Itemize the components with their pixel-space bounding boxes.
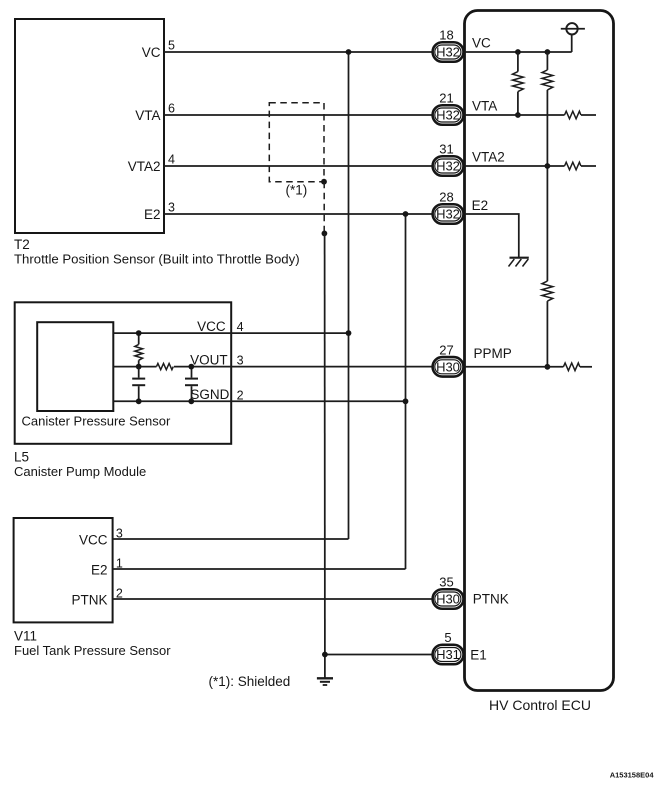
- module box L5 (Canister Pump Module): [15, 302, 232, 444]
- svg-text:27: 27: [439, 342, 453, 357]
- wire vertical VC to L5 VCC and V11 VCC: [348, 52, 350, 539]
- resistor pull-up VCC to VOUT in L5: [135, 333, 143, 367]
- svg-text:A153158E04: A153158E04: [610, 771, 655, 780]
- wire VC from T2 to connector: [164, 51, 433, 53]
- svg-text:Throttle Position Sensor (Buil: Throttle Position Sensor (Built into Thr…: [14, 252, 300, 267]
- wire VTA2 from T2 to connector: [164, 165, 433, 167]
- resistor series on VOUT: [157, 364, 174, 370]
- svg-text:H30: H30: [436, 592, 460, 607]
- svg-text:18: 18: [439, 28, 453, 43]
- connector 21 H32 (VTA): [433, 91, 464, 125]
- node shield corner: [321, 179, 327, 185]
- power node symbol (circle): [561, 23, 585, 52]
- shield dashed box (*1): [269, 103, 324, 182]
- svg-text:VC: VC: [472, 36, 491, 51]
- sensor box V11 (Fuel Tank Pressure Sensor): [14, 518, 113, 622]
- svg-text:(*1): (*1): [286, 183, 308, 198]
- svg-text:T2: T2: [14, 237, 30, 252]
- resistor pull-up VC to VTA: [513, 52, 524, 115]
- svg-text:5: 5: [168, 39, 175, 53]
- svg-text:(*1): Shielded: (*1): Shielded: [209, 674, 291, 689]
- wire VC inside ECU: [463, 51, 572, 53]
- svg-text:VTA: VTA: [135, 108, 160, 123]
- svg-text:6: 6: [168, 102, 175, 116]
- svg-text:E1: E1: [470, 648, 487, 663]
- svg-text:PTNK: PTNK: [473, 592, 509, 607]
- svg-text:L5: L5: [14, 450, 29, 465]
- wire vertical E2 to SGND and V11 E2: [405, 214, 407, 569]
- svg-text:H31: H31: [436, 647, 460, 662]
- wire shield drain dashed: [323, 182, 325, 234]
- node junction resistor bottom on VOUT: [136, 364, 142, 370]
- svg-text:E2: E2: [472, 198, 489, 213]
- svg-text:PPMP: PPMP: [474, 346, 512, 361]
- resistor lower section to PPMP: [542, 281, 553, 367]
- svg-text:3: 3: [237, 354, 244, 368]
- wire PPMP inside ECU: [463, 366, 563, 368]
- resistor series VTA stub: [565, 111, 597, 119]
- svg-text:VTA2: VTA2: [128, 159, 161, 174]
- node shield drain junction: [322, 231, 328, 237]
- svg-text:VCC: VCC: [79, 533, 108, 548]
- wire VTA2 inside ECU: [463, 165, 565, 167]
- chassis ground (E2 internal): [509, 258, 529, 267]
- node junction VTA2 / vertical: [545, 163, 551, 169]
- svg-text:VOUT: VOUT: [190, 352, 228, 367]
- svg-text:31: 31: [439, 142, 453, 157]
- resistor series VTA2 stub: [565, 162, 597, 170]
- wire VTA from T2 to connector: [164, 114, 433, 116]
- connector 18 H32 (VC): [433, 28, 464, 62]
- svg-text:H32: H32: [436, 108, 460, 123]
- node junction L5 VCC / vertical: [346, 330, 352, 336]
- wire L5 SGND: [113, 400, 405, 402]
- node junction PPMP / vertical: [545, 364, 551, 370]
- connector 5 H31 (E1): [433, 630, 464, 664]
- connector 27 H30 (PPMP): [433, 342, 464, 376]
- svg-text:H30: H30: [436, 359, 460, 374]
- connector 28 H32 (E2): [433, 190, 464, 224]
- svg-text:V11: V11: [14, 629, 37, 644]
- svg-text:H32: H32: [436, 45, 460, 60]
- svg-text:3: 3: [168, 201, 175, 215]
- svg-text:VC: VC: [142, 45, 161, 60]
- svg-text:E2: E2: [91, 563, 108, 578]
- connector 35 H30 (PTNK): [433, 575, 464, 609]
- svg-text:E2: E2: [144, 207, 161, 222]
- svg-text:SGND: SGND: [190, 387, 229, 402]
- capacitor C2 (right, VOUT to SGND): [185, 367, 198, 402]
- svg-text:H32: H32: [436, 207, 460, 222]
- svg-text:4: 4: [237, 320, 244, 334]
- node junction VC / vertical: [346, 49, 352, 55]
- wire E2 inside ECU to ground: [463, 214, 519, 258]
- svg-text:2: 2: [237, 388, 244, 402]
- connector 31 H32 (VTA2): [433, 142, 464, 176]
- svg-text:VCC: VCC: [197, 319, 226, 334]
- resistor series PPMP stub: [563, 363, 592, 371]
- svg-text:Fuel Tank Pressure Sensor: Fuel Tank Pressure Sensor: [14, 643, 171, 658]
- node junction VTA / pull-up: [515, 112, 521, 118]
- node junction SGND / vertical: [403, 398, 409, 404]
- svg-text:4: 4: [168, 153, 175, 167]
- svg-text:VTA: VTA: [472, 99, 497, 114]
- svg-text:H32: H32: [436, 159, 460, 174]
- svg-text:5: 5: [444, 630, 451, 645]
- node junction E2 / vertical: [403, 211, 409, 217]
- sensor box T2 (Throttle Position Sensor): [15, 19, 164, 233]
- earth ground symbol: [317, 678, 333, 685]
- ECU box HV Control ECU: [465, 11, 614, 691]
- capacitor C1 (left, VOUT to SGND): [132, 367, 145, 402]
- wire E2 from T2 to connector: [164, 213, 433, 215]
- svg-text:28: 28: [439, 190, 453, 205]
- wire E1 from ground to connector: [325, 654, 433, 656]
- svg-text:PTNK: PTNK: [71, 593, 107, 608]
- wire V11 PTNK to connector: [113, 598, 433, 600]
- svg-text:Canister Pump Module: Canister Pump Module: [14, 464, 146, 479]
- node junction VC / right pull-up: [545, 49, 551, 55]
- svg-text:35: 35: [439, 575, 453, 590]
- wire VTA inside ECU: [463, 114, 565, 116]
- svg-text:HV Control ECU: HV Control ECU: [489, 697, 591, 713]
- node junction C2 top on VOUT: [188, 364, 194, 370]
- node junction E1 / drain: [322, 652, 328, 658]
- node junction C2 bottom on SGND: [188, 398, 194, 404]
- wire L5 VOUT left segment: [113, 366, 156, 368]
- node junction C1 bottom on SGND: [136, 398, 142, 404]
- canister pressure sensor inner box: [37, 322, 113, 411]
- wire L5 VCC: [113, 332, 348, 334]
- wire V11 VCC up to VC line: [113, 538, 349, 540]
- wire L5 VOUT right segment to connector: [174, 366, 433, 368]
- svg-text:21: 21: [439, 91, 453, 106]
- wire shield drain to ground: [324, 233, 326, 678]
- wire V11 E2 up to E2 line: [113, 568, 406, 570]
- svg-text:Canister Pressure Sensor: Canister Pressure Sensor: [22, 414, 172, 429]
- node junction resistor top on VCC: [136, 330, 142, 336]
- resistor pull-up VC (upper section): [542, 52, 553, 281]
- svg-text:VTA2: VTA2: [472, 150, 505, 165]
- node junction VC / left pull-up: [515, 49, 521, 55]
